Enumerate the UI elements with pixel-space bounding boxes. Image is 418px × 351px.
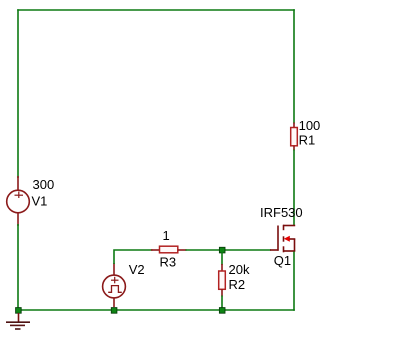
node junction gate row / R2 top bbox=[219, 247, 225, 253]
resistor R1 bbox=[291, 123, 298, 151]
svg-text:V2: V2 bbox=[129, 262, 145, 277]
node junction R2 bottom bbox=[219, 308, 225, 314]
wire R3 to gate row bbox=[186, 249, 272, 251]
svg-text:Q1: Q1 bbox=[274, 253, 291, 268]
svg-text:V1: V1 bbox=[32, 194, 48, 209]
wire V2 top corner to R3 bbox=[114, 250, 153, 264]
channel dash top bbox=[283, 225, 285, 230]
node junction V2 bottom bbox=[111, 308, 117, 314]
body arrow bbox=[284, 236, 290, 242]
node junction bottom-left bbox=[16, 308, 22, 314]
svg-text:IRF530: IRF530 bbox=[260, 205, 303, 220]
channel dash bottom bbox=[283, 246, 285, 252]
gate bar bbox=[277, 226, 279, 251]
svg-text:R1: R1 bbox=[299, 133, 316, 148]
body stub bbox=[290, 238, 296, 240]
svg-text:R2: R2 bbox=[229, 277, 246, 292]
voltage source V1 bbox=[7, 176, 30, 226]
resistor R3 bbox=[151, 246, 187, 253]
wire source to bottom bbox=[293, 252, 295, 311]
svg-text:20k: 20k bbox=[229, 262, 250, 277]
wire bottom horizontal bbox=[17, 309, 295, 311]
transistor Q1 MOSFET bbox=[270, 225, 295, 253]
svg-text:100: 100 bbox=[299, 118, 321, 133]
wire right vertical upper bbox=[293, 9, 295, 123]
wire left vertical lower bbox=[17, 224, 19, 310]
drain stub bbox=[283, 225, 295, 227]
voltage source V2 bbox=[103, 263, 126, 307]
wire left vertical upper bbox=[17, 9, 19, 178]
resistor R2 bbox=[219, 252, 226, 308]
svg-text:1: 1 bbox=[163, 228, 170, 243]
channel dash middle bbox=[283, 236, 285, 241]
svg-text:R3: R3 bbox=[160, 254, 177, 269]
body-source connector bbox=[294, 239, 296, 252]
svg-text:300: 300 bbox=[33, 177, 55, 192]
source stub bbox=[283, 250, 295, 252]
gate lead bbox=[270, 249, 279, 251]
wire R1 to drain bbox=[293, 150, 295, 227]
ground bbox=[6, 313, 30, 329]
wire top horizontal bbox=[17, 9, 295, 11]
